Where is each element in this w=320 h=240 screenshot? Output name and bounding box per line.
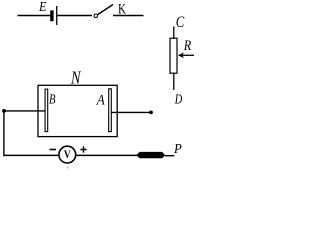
rheostat R: body [170,38,177,73]
wire: left lead to battery [18,15,51,17]
rod P (carbon rod) [136,152,165,158]
plate A (right electrode) [109,89,112,132]
svg-text:E: E [38,0,47,15]
switch K: blade [98,5,113,15]
wire: left lead into plate B [4,110,45,112]
svg-text:V: V [64,149,71,161]
voltmeter minus sign [50,149,56,151]
svg-text:C: C [176,14,185,31]
wire: left vertical down [3,111,5,155]
wire: rheostat bottom to D [173,73,175,90]
rheostat R: wiper arrowhead [178,52,184,58]
wire: plate A to right terminal [111,111,149,113]
svg-text:N: N [70,68,81,88]
plate B (left electrode) [45,89,48,132]
rheostat R: wiper arrow shaft [182,54,194,56]
switch K: pivot circle [94,14,98,18]
wire: switch to open end [113,15,144,17]
wire: C to rheostat top [173,27,175,39]
wire: battery to switch [57,15,92,17]
battery E: positive plate (long thin) [56,6,57,25]
svg-text:K: K [118,2,126,18]
svg-text:R: R [183,38,191,54]
voltmeter V: body circle [59,146,76,163]
svg-text:P: P [173,142,182,157]
node: right terminal dot [149,111,153,115]
junction node (left terminal dot) [2,109,6,113]
wire: voltmeter to rod P [76,154,137,156]
box N (chamber) [38,85,117,136]
voltmeter plus sign [80,146,86,152]
wire: bottom left to voltmeter [3,154,58,156]
svg-text:D: D [174,93,182,108]
stray mark below voltmeter [67,167,68,169]
battery E: negative plate (short thick) [50,10,53,21]
svg-text:A: A [96,93,106,109]
wire: rod P to end [165,155,174,157]
svg-text:B: B [49,93,56,108]
